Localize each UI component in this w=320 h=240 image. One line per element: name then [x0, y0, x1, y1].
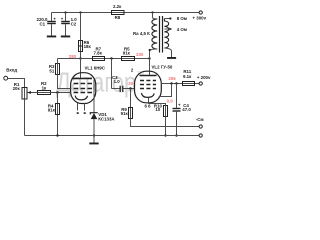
svg-text:20к: 20к [13, 86, 21, 91]
terminal +200v [199, 82, 202, 85]
svg-text:6 6: 6 6 [145, 104, 152, 109]
resistor R11 [183, 69, 195, 86]
svg-text:1.0: 1.0 [114, 79, 121, 84]
resistor R4 [48, 93, 60, 136]
cathode wire to R10 [149, 98, 166, 106]
svg-text:51: 51 [49, 68, 54, 73]
transformer core [159, 16, 161, 53]
ground [93, 136, 95, 143]
svg-text:2.2к: 2.2к [113, 4, 122, 9]
screen wire [161, 83, 200, 85]
potentiometer R1 [13, 82, 38, 136]
node C3 tap [110, 57, 112, 59]
g3 tie wire [159, 84, 172, 97]
svg-text:0.9: 0.9 [167, 99, 174, 104]
svg-text:18к: 18к [84, 44, 92, 49]
tube VL1 6Н9С [71, 59, 106, 115]
resistor R6 [79, 13, 92, 59]
resistor R10 [145, 104, 168, 136]
svg-text:10: 10 [155, 107, 160, 112]
svg-text:R8: R8 [115, 15, 121, 20]
input terminal [4, 67, 25, 99]
svg-text:Вход: Вход [6, 67, 17, 72]
svg-text:-30: -30 [127, 81, 134, 86]
svg-text:330: 330 [136, 52, 144, 57]
capacitor C2 [61, 11, 78, 35]
terminal -Cм [199, 125, 202, 128]
svg-text:+: + [53, 16, 56, 21]
ground secondary [167, 57, 176, 59]
svg-text:+ 300v: + 300v [193, 15, 207, 20]
resistor R8 [79, 4, 124, 20]
node 330 [148, 57, 150, 59]
bottom rail [25, 135, 200, 137]
svg-text:8 Ом: 8 Ом [177, 16, 187, 21]
tube VL2 ГУ-50 [131, 59, 173, 103]
resistor R9 [121, 89, 200, 127]
node [93, 134, 95, 136]
diode VD1 zener [90, 112, 115, 135]
watermark [56, 67, 145, 98]
svg-text:Ra 4,5 К: Ra 4,5 К [133, 31, 150, 36]
node 280 [79, 57, 81, 59]
capacitor C4 [173, 84, 192, 136]
wire grid node [38, 92, 71, 94]
svg-text:9.1к: 9.1к [183, 74, 192, 79]
terminal +300v [199, 11, 202, 14]
capacitor C3 [112, 59, 135, 93]
svg-text:91к: 91к [123, 51, 131, 56]
svg-text:VL2 ГУ-50: VL2 ГУ-50 [152, 65, 173, 70]
svg-text:C1: C1 [40, 22, 46, 27]
svg-text:+: + [61, 16, 64, 21]
svg-text:+: + [178, 103, 181, 108]
ground [47, 36, 56, 38]
svg-text:C2: C2 [71, 22, 77, 27]
svg-text:КС133А: КС133А [98, 116, 115, 121]
wire anode row [58, 58, 150, 60]
resistor R5 [122, 47, 135, 61]
svg-text:4 Ом: 4 Ом [177, 27, 187, 32]
svg-text:+ 200v: + 200v [197, 75, 211, 80]
svg-text:47.0: 47.0 [182, 107, 191, 112]
resistor R3 [49, 59, 72, 89]
svg-text:255: 255 [168, 76, 176, 81]
svg-text:VL1 6Н9С: VL1 6Н9С [85, 65, 106, 70]
terminal gnd [199, 134, 202, 137]
svg-text:-См: -См [196, 117, 204, 122]
node -30 [129, 87, 131, 89]
wire top rail [52, 12, 200, 14]
svg-text:91к: 91к [121, 111, 129, 116]
svg-text:1к: 1к [42, 85, 47, 90]
capacitor C1 [37, 13, 57, 36]
resistor R2 [38, 81, 51, 94]
svg-text:7.8к: 7.8к [94, 51, 103, 56]
transformer primary Ra [133, 11, 157, 58]
transformer secondary [164, 16, 187, 57]
svg-text:91к: 91к [48, 108, 56, 113]
resistor R7 [93, 47, 105, 61]
ground [61, 36, 70, 38]
